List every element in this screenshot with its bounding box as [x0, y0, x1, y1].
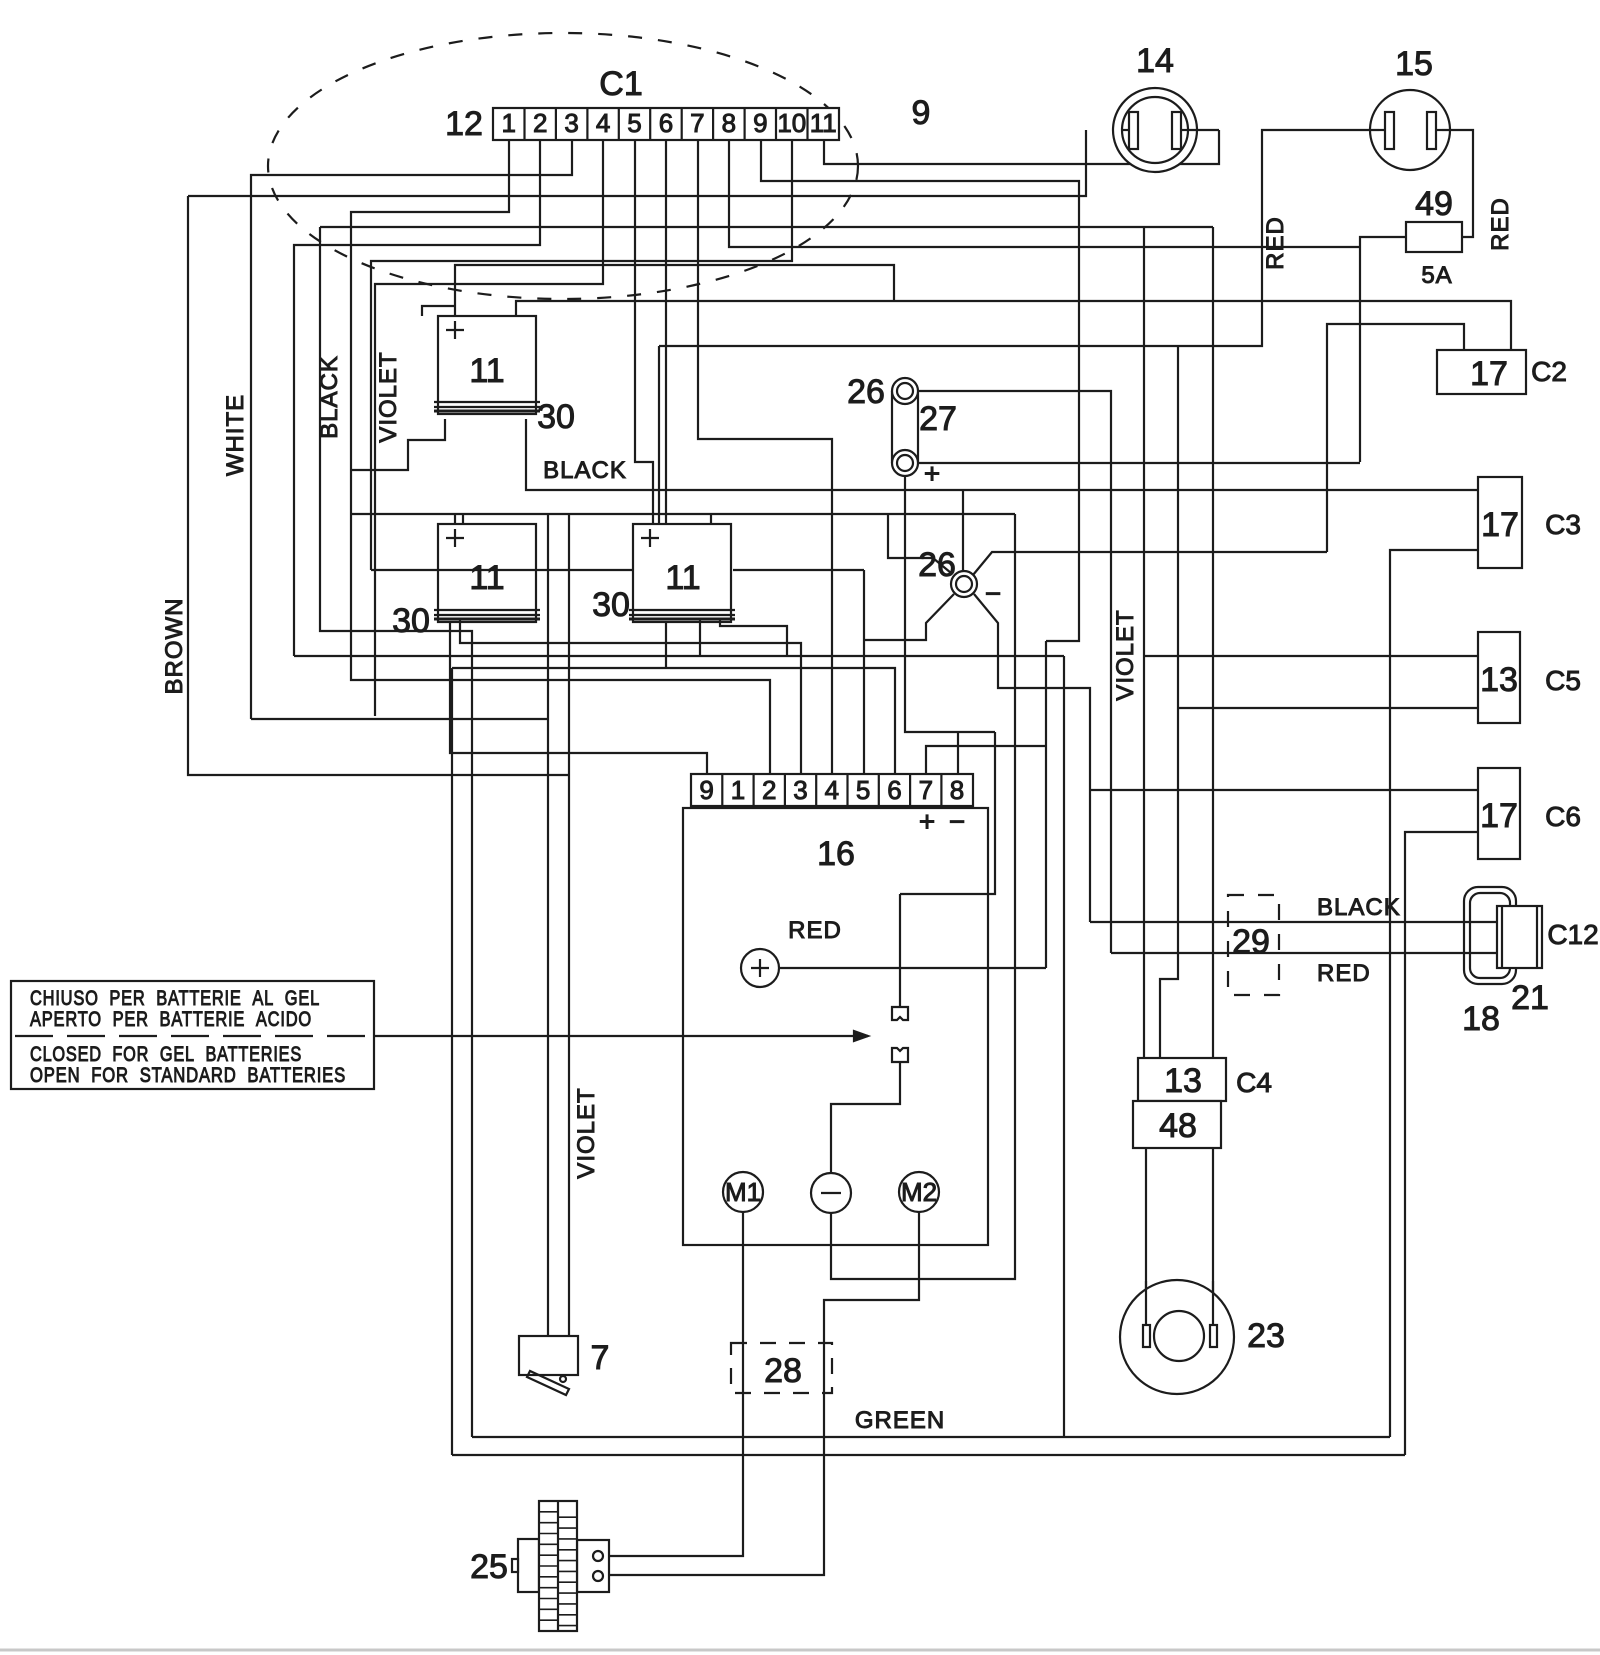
- svg-text:25: 25: [470, 1548, 508, 1586]
- svg-text:28: 28: [764, 1352, 802, 1390]
- svg-text:8: 8: [950, 775, 964, 805]
- svg-text:−: −: [949, 806, 965, 837]
- wire C1 pin5: [635, 140, 653, 524]
- battery 11 top: [438, 316, 536, 414]
- svg-text:M2: M2: [901, 1177, 937, 1207]
- svg-text:+: +: [919, 806, 935, 837]
- svg-text:3: 3: [564, 108, 578, 138]
- wire violet c5 segment: [1144, 655, 1478, 657]
- svg-text:23: 23: [1247, 1317, 1285, 1355]
- svg-text:11: 11: [469, 352, 504, 390]
- svg-text:11: 11: [810, 108, 837, 138]
- relay 48 box: [1133, 1101, 1221, 1148]
- wire C5 pin2: [1178, 707, 1478, 709]
- connector C6 box: [1478, 768, 1520, 859]
- wire black to C12: [1090, 921, 1497, 923]
- svg-text:9: 9: [753, 108, 767, 138]
- wire C1 pin6: [665, 140, 667, 668]
- wire battery1 top to C2: [516, 301, 1511, 350]
- svg-text:BROWN: BROWN: [161, 598, 188, 695]
- wire riser 1064: [1063, 656, 1065, 1437]
- jumper callout arrow: [374, 1035, 868, 1037]
- terminal plus circle: [741, 949, 779, 987]
- connector shell 18: [1464, 887, 1516, 984]
- wire trunk 1144: [1143, 227, 1145, 1058]
- wire cell7 feed: [926, 746, 1046, 775]
- svg-text:1: 1: [731, 775, 745, 805]
- svg-text:7: 7: [591, 1339, 610, 1377]
- svg-text:26: 26: [918, 546, 956, 584]
- svg-text:C4: C4: [1236, 1067, 1272, 1098]
- wire C6 pin2: [1405, 832, 1478, 1455]
- svg-text:BLACK: BLACK: [543, 457, 627, 484]
- wire 7 right riser: [568, 514, 570, 1336]
- connector C2 box: [1437, 350, 1526, 394]
- svg-text:2: 2: [762, 775, 776, 805]
- wire node SW arm: [864, 594, 954, 640]
- wire white lower: [251, 718, 548, 720]
- svg-text:30: 30: [537, 398, 575, 436]
- svg-text:C3: C3: [1545, 509, 1581, 540]
- svg-text:2: 2: [533, 108, 547, 138]
- wire big rect left: [451, 668, 453, 1455]
- connector C3 box: [1478, 477, 1522, 568]
- wire node NE riser: [1327, 324, 1464, 552]
- svg-text:C2: C2: [1531, 356, 1567, 387]
- wire 7 left riser: [547, 514, 549, 1336]
- wire node NW arm: [888, 514, 951, 573]
- wire C1 pin2: [294, 140, 540, 656]
- plug 21: [1497, 906, 1542, 968]
- svg-text:7: 7: [690, 108, 704, 138]
- wire long white to 14: [188, 130, 1086, 196]
- wire battery1 plus: [455, 265, 894, 316]
- svg-text:4: 4: [825, 775, 839, 805]
- wire harness 9 dashed outline: [268, 33, 858, 299]
- wire cell6 line: [452, 668, 895, 775]
- svg-text:RED: RED: [1487, 197, 1514, 251]
- jumper top contact: [892, 1007, 908, 1020]
- svg-text:WHITE: WHITE: [222, 394, 249, 476]
- svg-text:APERTO PER BATTERIE ACIDO: APERTO PER BATTERIE ACIDO: [30, 1008, 312, 1031]
- wire brown vertical: [188, 196, 569, 775]
- wire 27 bottom tail: [905, 476, 995, 732]
- svg-text:13: 13: [1164, 1062, 1202, 1100]
- svg-text:C1: C1: [599, 65, 642, 103]
- svg-text:RED: RED: [1262, 216, 1289, 270]
- svg-text:RED: RED: [1317, 960, 1371, 987]
- svg-text:29: 29: [1232, 923, 1270, 961]
- wire cell8 drop: [957, 732, 959, 775]
- controller 16 box and strip: [683, 808, 988, 1245]
- svg-text:9: 9: [699, 775, 713, 805]
- component 27 capsule: [891, 391, 893, 463]
- wire node26 top drop: [962, 490, 964, 570]
- wire M1 to motor: [608, 1212, 743, 1556]
- wire C6 pin1: [1090, 789, 1478, 791]
- wire battery2 plus: [454, 514, 456, 524]
- node 26 lower rings: [951, 571, 977, 597]
- marker 28 dashed box: [731, 1343, 832, 1393]
- svg-text:14: 14: [1136, 42, 1174, 80]
- terminal minus circle: [811, 1173, 851, 1213]
- wire battery3 bottom tap2: [699, 619, 701, 656]
- wire jumper top bend: [900, 732, 995, 894]
- svg-text:−: −: [985, 578, 1001, 609]
- wire 27 bottom to fuse: [918, 462, 1360, 464]
- svg-text:17: 17: [1480, 797, 1518, 835]
- bottom page line: [0, 1649, 1600, 1652]
- component 15: [1370, 90, 1450, 170]
- wire 27 top to red drop: [918, 391, 1111, 953]
- svg-text:M1: M1: [725, 1177, 761, 1207]
- svg-text:30: 30: [592, 586, 630, 624]
- connector 13 C4: [1138, 1058, 1226, 1101]
- wire C1 pin7: [698, 140, 832, 775]
- wire red to C12: [1111, 952, 1497, 954]
- wire riser 1178: [1160, 346, 1178, 1058]
- svg-text:13: 13: [1480, 661, 1518, 699]
- wire jumper bottom: [831, 1062, 900, 1173]
- svg-text:CLOSED FOR GEL BATTERIES: CLOSED FOR GEL BATTERIES: [30, 1043, 302, 1066]
- svg-text:C12: C12: [1547, 919, 1598, 950]
- wire battery1 plus bracket: [422, 306, 455, 316]
- wire minus chain: [831, 514, 1015, 1279]
- wire C3 pin2: [1390, 550, 1478, 1437]
- wire 15 left pin: [659, 130, 1379, 346]
- wire node SE arm: [974, 594, 1090, 922]
- svg-text:30: 30: [392, 602, 430, 640]
- svg-text:1: 1: [501, 108, 515, 138]
- wire riser 1046: [1045, 641, 1047, 968]
- svg-text:6: 6: [659, 108, 673, 138]
- svg-text:OPEN FOR STANDARD BATTERIES: OPEN FOR STANDARD BATTERIES: [30, 1064, 346, 1087]
- svg-text:3: 3: [793, 775, 807, 805]
- component 14: [1113, 88, 1197, 172]
- wire pin10 lower b: [733, 569, 864, 571]
- svg-text:VIOLET: VIOLET: [375, 351, 402, 442]
- wire C1 pin8: [729, 140, 1360, 247]
- wire battery3 bottom-right step: [720, 619, 787, 656]
- battery 11 bottom-left: [438, 524, 536, 622]
- svg-text:17: 17: [1470, 355, 1508, 393]
- wire 14 right pin: [1187, 129, 1219, 131]
- wire plus circle out: [779, 967, 1046, 969]
- svg-text:11: 11: [469, 559, 504, 597]
- wire C1 pin11: [824, 130, 1219, 164]
- wire battery3 plus from 15: [658, 346, 660, 524]
- svg-text:C5: C5: [1545, 665, 1581, 696]
- component 7: [519, 1336, 578, 1375]
- svg-text:RED: RED: [788, 917, 842, 944]
- wire C1 pin3: [251, 140, 572, 719]
- svg-text:VIOLET: VIOLET: [1112, 609, 1139, 700]
- wire green upper: [472, 1436, 1390, 1438]
- svg-text:18: 18: [1462, 1000, 1500, 1038]
- wire M2 chain: [608, 1212, 919, 1575]
- wire jumper top: [899, 894, 901, 1007]
- svg-text:5A: 5A: [1421, 262, 1452, 289]
- terminal M1: [723, 1172, 763, 1212]
- svg-text:11: 11: [665, 559, 700, 597]
- connector C5 box: [1478, 632, 1520, 723]
- wire fuse left: [1360, 237, 1406, 462]
- wire bus y514: [351, 513, 1015, 515]
- svg-text:8: 8: [722, 108, 736, 138]
- svg-text:49: 49: [1415, 185, 1453, 223]
- wire battery3 top tap: [710, 514, 712, 523]
- connector C1 terminal strip: [493, 108, 839, 140]
- wire black bus battery1 to C3: [526, 419, 1478, 490]
- wire cell5 riser: [863, 570, 865, 775]
- svg-text:7: 7: [919, 775, 933, 805]
- wire pin10 lower: [371, 569, 634, 571]
- svg-text:27: 27: [919, 400, 957, 438]
- wire C4 to 23 left: [1145, 1148, 1147, 1316]
- svg-text:26: 26: [847, 373, 885, 411]
- wire battery2 bottom to cell3: [460, 619, 801, 775]
- svg-text:15: 15: [1395, 45, 1433, 83]
- wire branch to cell9: [450, 621, 707, 775]
- wire 15 right pin: [1442, 130, 1473, 237]
- component 23 socket: [1120, 1280, 1234, 1394]
- svg-text:C6: C6: [1545, 801, 1581, 832]
- wire bridge y227: [320, 226, 1213, 228]
- wire green lower: [452, 1454, 1405, 1456]
- svg-text:5: 5: [627, 108, 641, 138]
- fuse 49 5A: [1406, 222, 1462, 252]
- wire C1 pin4: [375, 140, 603, 716]
- svg-text:21: 21: [1511, 979, 1549, 1017]
- wire C1 pin10: [371, 140, 792, 570]
- svg-text:5: 5: [856, 775, 870, 805]
- wire battery2 plus b: [462, 514, 464, 524]
- svg-text:6: 6: [887, 775, 901, 805]
- jumper bottom contact: [892, 1048, 908, 1062]
- instruction text box: [11, 981, 374, 1089]
- svg-text:10: 10: [777, 108, 806, 138]
- terminal M2: [899, 1172, 939, 1212]
- svg-text:CHIUSO PER BATTERIE AL GEL: CHIUSO PER BATTERIE AL GEL: [30, 987, 320, 1010]
- wire c5 feed line: [294, 655, 1064, 657]
- motor 25 with gear: [518, 1539, 539, 1592]
- svg-text:17: 17: [1481, 506, 1519, 544]
- svg-text:48: 48: [1159, 1107, 1197, 1145]
- wire C1 pin9: [761, 140, 1079, 641]
- wire node NE arm: [973, 552, 1327, 575]
- svg-text:4: 4: [596, 108, 610, 138]
- wire battery1 bottom staircase: [351, 419, 445, 470]
- svg-text:BLACK: BLACK: [1317, 894, 1401, 921]
- wire C1 pin1: [351, 140, 770, 775]
- svg-text:9: 9: [912, 94, 931, 132]
- svg-text:GREEN: GREEN: [855, 1407, 945, 1434]
- svg-text:16: 16: [817, 835, 855, 873]
- battery 11 bottom-right: [633, 524, 731, 622]
- marker 29 dashed box: [1228, 895, 1279, 995]
- wire 14R through C4 to 23 right: [1212, 227, 1214, 1316]
- wire inner rect left: [320, 227, 472, 1437]
- svg-text:12: 12: [445, 105, 483, 143]
- svg-text:VIOLET: VIOLET: [573, 1087, 600, 1178]
